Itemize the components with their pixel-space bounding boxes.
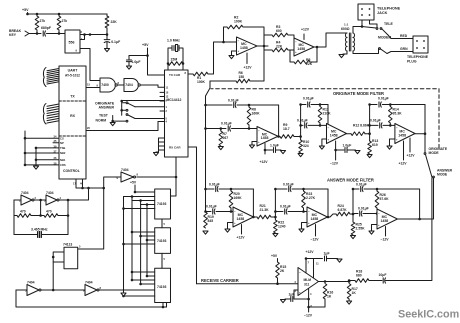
node filter input (answer) — [204, 188, 207, 191]
capacitor 0.1uF (556 timing) — [104, 39, 110, 41]
switch contact ORIGINATE MODE — [424, 153, 426, 155]
wire carry counter1 to counter2 — [161, 219, 163, 228]
wire A2 feedback to output — [327, 189, 329, 217]
ground (U9 + input) — [302, 223, 308, 229]
wire 7400 to 7404 — [118, 84, 124, 86]
svg-text:1.0 MHz: 1.0 MHz — [167, 39, 180, 43]
svg-text:+12V: +12V — [260, 160, 269, 164]
svg-text:+: + — [396, 137, 398, 141]
resistor 22K — [105, 16, 109, 28]
svg-text:0.01μF: 0.01μF — [370, 119, 381, 123]
svg-text:6.87K: 6.87K — [338, 208, 348, 212]
svg-text:+5V: +5V — [271, 254, 278, 258]
svg-text:+12V: +12V — [407, 154, 416, 158]
mid row O2 — [301, 124, 303, 126]
svg-text:100K: 100K — [234, 20, 243, 24]
svg-text:7404: 7404 — [21, 191, 29, 195]
svg-text:MC14412: MC14412 — [167, 98, 182, 102]
power +12V and 1uF (U5) — [264, 144, 266, 155]
svg-text:CONTROL: CONTROL — [63, 169, 80, 173]
counter 74193 (1) — [155, 189, 171, 219]
wire switch pole down to limiter — [386, 178, 432, 281]
wire transformer secondary to switch — [353, 27, 362, 34]
ground (R10) — [298, 154, 303, 157]
op-amp U3 MC1458 (TX driver 1) — [237, 37, 258, 55]
op-amp U4 MC1458 (TX driver 2) — [294, 38, 314, 56]
mid row A3 — [353, 213, 358, 215]
svg-text:10μF: 10μF — [379, 273, 387, 277]
top row A2 — [275, 188, 287, 190]
svg-text:0.01μF: 0.01μF — [221, 122, 232, 126]
svg-text:0.01μF: 0.01μF — [303, 97, 314, 101]
ground (NORM contact) — [110, 123, 115, 126]
svg-text:MODE: MODE — [429, 151, 440, 155]
ground (556 cap) — [104, 49, 109, 52]
switch blade mode select — [426, 155, 432, 177]
svg-text:AY-5-1012: AY-5-1012 — [65, 74, 80, 78]
ground (U6 bypass) — [355, 151, 360, 154]
wire counter3 pins — [132, 271, 155, 273]
svg-text:0.01μF: 0.01μF — [358, 207, 369, 211]
svg-text:1458: 1458 — [297, 47, 305, 51]
wire transformer primary — [343, 51, 347, 54]
svg-text:TEST: TEST — [99, 113, 109, 117]
svg-text:600Ω: 600Ω — [341, 27, 350, 31]
MC14412 left stub pins — [160, 91, 165, 93]
svg-text:−: − — [234, 210, 236, 214]
svg-text:18.7: 18.7 — [283, 127, 290, 131]
wire control bus vertical — [24, 131, 26, 165]
svg-text:21.3K: 21.3K — [260, 208, 270, 212]
ground (control pins) — [33, 166, 38, 169]
svg-text:GRN: GRN — [400, 47, 408, 51]
wire 556 output to 22K node — [80, 34, 107, 36]
wire A1 feedback to output — [252, 189, 254, 217]
svg-text:TX: TX — [70, 95, 75, 99]
svg-text:−12V: −12V — [381, 238, 390, 242]
node mid row O1 — [204, 127, 207, 130]
ground (1.0uF) — [126, 66, 131, 69]
wire jack pins down — [361, 20, 363, 27]
svg-text:7400: 7400 — [101, 83, 109, 87]
svg-text:−12V: −12V — [330, 162, 339, 166]
wire osc output up to UART clock — [86, 188, 89, 200]
power -12V (U9) — [315, 225, 317, 237]
svg-text:619: 619 — [372, 143, 378, 147]
wire clock inverter output to MC14412 pin — [137, 176, 176, 178]
power -12V (U10) — [385, 227, 387, 237]
svg-text:0.01μF: 0.01μF — [228, 99, 239, 103]
svg-text:1K: 1K — [327, 295, 332, 299]
svg-text:556: 556 — [69, 41, 75, 45]
telephone jack J1 — [358, 4, 374, 20]
svg-text:1458: 1458 — [236, 217, 244, 221]
svg-text:95.3K: 95.3K — [393, 112, 403, 116]
wire UART clock pins to divider — [76, 187, 104, 189]
svg-text:−: − — [258, 129, 260, 133]
wire R1 to op-amp U3 input — [208, 42, 237, 74]
wire MC14412 timing pin down to counters — [171, 157, 177, 196]
svg-text:7404: 7404 — [125, 83, 133, 87]
wire O2 feedback to output — [327, 105, 329, 134]
wire U11 minus bias cap — [294, 290, 298, 299]
wire U10 output to answer contact — [397, 218, 419, 220]
wire U4 output to transformer — [314, 33, 347, 47]
svg-text:1K: 1K — [352, 291, 357, 295]
ground (bias cap) — [280, 300, 285, 303]
wire NORM contact to ground — [113, 120, 126, 122]
dashed border originate mode filter — [211, 89, 439, 148]
wire osc verticals — [13, 200, 15, 235]
op-amp U7 MC1458 (originate stage 3) — [395, 124, 415, 144]
wire osc — [35, 199, 47, 201]
svg-text:NP: NP — [60, 141, 64, 145]
divider gate 7404 (D) — [85, 285, 97, 296]
wire counter preset bus — [123, 197, 125, 292]
op-amp U10 MC1458 (answer stage 3) — [377, 209, 397, 229]
svg-text:−: − — [328, 126, 330, 130]
svg-text:TELEPHONE: TELEPHONE — [407, 55, 429, 59]
svg-text:1458: 1458 — [380, 219, 388, 223]
ground (R13) — [367, 155, 372, 158]
wire duplexer tap to filter input — [209, 81, 211, 88]
svg-text:+: + — [238, 49, 240, 53]
svg-text:CS: CS — [60, 136, 64, 140]
ground (transformer) — [339, 55, 344, 58]
timer U1 556 — [65, 30, 80, 53]
top row O3 — [370, 104, 377, 106]
svg-text:SeekIC.com: SeekIC.com — [398, 309, 459, 321]
svg-text:1458: 1458 — [240, 46, 248, 50]
svg-text:+: + — [258, 140, 260, 144]
power -12V and 1.0uF (U6) — [335, 141, 337, 160]
svg-text:74193: 74193 — [157, 285, 167, 289]
svg-text:210K: 210K — [323, 112, 332, 116]
wire clock inverter input — [78, 177, 121, 249]
svg-text:74113: 74113 — [63, 243, 72, 247]
svg-text:ANSWER: ANSWER — [99, 105, 115, 109]
op-amp U8 MC1458 (answer stage 1) — [233, 207, 253, 227]
wire divider output to counter clock — [100, 289, 155, 291]
svg-text:RX CAR: RX CAR — [169, 146, 181, 150]
svg-text:MODE: MODE — [437, 173, 448, 177]
svg-text:TELE: TELE — [384, 22, 393, 26]
svg-text:RX: RX — [70, 114, 76, 118]
svg-text:267: 267 — [223, 136, 229, 140]
svg-text:0.01μF: 0.01μF — [297, 119, 308, 123]
svg-text:2.27K: 2.27K — [306, 196, 316, 200]
svg-text:TELEPHONE: TELEPHONE — [377, 7, 401, 11]
svg-text:TX CAR: TX CAR — [169, 73, 181, 77]
wire U11 output — [319, 281, 350, 283]
wire filter input from duplexer (switch blade) — [206, 88, 211, 96]
svg-text:2.55K: 2.55K — [356, 227, 366, 231]
svg-text:1μF: 1μF — [324, 252, 330, 256]
wire divider — [42, 289, 86, 291]
wire counter2 pins — [132, 231, 155, 233]
oscillator gate 7404 (B) — [46, 195, 57, 205]
svg-text:1.0μF: 1.0μF — [132, 60, 141, 64]
svg-text:311: 311 — [304, 282, 309, 286]
switch blade originate/answer — [126, 102, 128, 104]
svg-text:+: + — [308, 221, 310, 225]
wire carry counter2 to counter3 — [161, 253, 163, 268]
svg-text:74193: 74193 — [157, 202, 167, 206]
svg-text:+: + — [299, 291, 301, 295]
svg-text:0.1μF: 0.1μF — [111, 40, 120, 44]
svg-text:NB1: NB1 — [60, 158, 66, 162]
svg-text:+: + — [234, 221, 236, 225]
svg-text:−12V: −12V — [311, 238, 320, 242]
svg-text:0.01μF: 0.01μF — [283, 183, 294, 187]
IC UART AY-5-1012 — [59, 66, 86, 179]
UART control pins CS NP TSB NB2 NB1 CRS — [25, 137, 59, 139]
svg-text:PLUG: PLUG — [407, 60, 417, 64]
svg-text:22K: 22K — [111, 20, 118, 24]
wire RX CAR pin to receive carrier line — [188, 147, 197, 284]
svg-text:+12V: +12V — [399, 162, 408, 166]
ground (U3 + input) — [232, 51, 237, 55]
svg-text:100K: 100K — [197, 80, 206, 84]
ground (R19) — [203, 231, 208, 234]
svg-text:0.01μF: 0.01μF — [356, 183, 367, 187]
svg-text:−12V: −12V — [304, 314, 313, 318]
power +12V stub (U3) — [246, 53, 248, 64]
svg-text:7404: 7404 — [85, 280, 93, 284]
ground (U8 + input) — [228, 223, 234, 229]
UART RX data bus pins (hatched) — [47, 104, 59, 106]
svg-text:158: 158 — [239, 75, 245, 79]
svg-text:470: 470 — [20, 210, 26, 214]
wire switch bus to MC14412 pin — [122, 100, 165, 102]
svg-text:CRS: CRS — [60, 163, 66, 167]
svg-text:+: + — [328, 137, 330, 141]
wire TX CAR to R1 — [188, 73, 193, 75]
MC14412 bottom-left pins to ground — [159, 137, 165, 139]
svg-text:1458: 1458 — [398, 133, 406, 137]
resistor 27k (first) — [35, 16, 39, 30]
svg-text:160K: 160K — [252, 112, 261, 116]
svg-text:680: 680 — [356, 274, 362, 278]
svg-text:2K: 2K — [280, 269, 285, 273]
svg-text:7404: 7404 — [46, 191, 54, 195]
wire answer output to switch contact — [420, 178, 434, 219]
svg-text:1μF: 1μF — [289, 293, 295, 297]
ground (counter bus) — [123, 291, 125, 293]
svg-text:0.01μF: 0.01μF — [378, 97, 389, 101]
svg-text:1458: 1458 — [310, 217, 318, 221]
svg-text:1.0μF: 1.0μF — [270, 144, 279, 148]
gate 7400 (break/TX) — [100, 78, 115, 92]
svg-text:1:1: 1:1 — [344, 23, 349, 27]
svg-text:ANSWER MODE FILTER: ANSWER MODE FILTER — [327, 177, 374, 182]
wire 556 threshold stub — [80, 35, 85, 40]
svg-text:−: − — [299, 271, 301, 275]
svg-text:470: 470 — [46, 210, 52, 214]
svg-text:1.0μF: 1.0μF — [343, 144, 352, 148]
comparator U11 MLM311 — [298, 268, 319, 296]
power +12V stub (U4) — [303, 34, 305, 40]
svg-text:74193: 74193 — [157, 239, 167, 243]
svg-text:22K: 22K — [276, 44, 283, 48]
svg-text:845: 845 — [208, 219, 214, 223]
power +12V (U8) — [241, 225, 243, 235]
wire A3 feedback vertical — [419, 189, 421, 219]
mid row A2 — [275, 211, 283, 213]
svg-text:1240: 1240 — [278, 225, 286, 229]
svg-text:+12V: +12V — [237, 236, 246, 240]
counter 74193 (2) — [155, 228, 171, 254]
svg-text:0.01μF: 0.01μF — [206, 205, 217, 209]
wire O3 feedback to output — [424, 105, 426, 153]
top row A3 — [353, 188, 359, 190]
svg-text:+5V: +5V — [142, 43, 149, 47]
wire U7 output to originate contact — [415, 133, 425, 135]
svg-text:15M: 15M — [171, 58, 178, 62]
capacitor 1.0uF (5V bypass) — [129, 56, 148, 60]
ground (R17) — [347, 301, 352, 304]
switch contact ANSWER MODE — [433, 176, 435, 178]
op-amp U9 MC1458 (answer stage 2) — [307, 207, 327, 227]
ground (MC14412 pins) — [153, 153, 158, 156]
svg-text:+5V: +5V — [22, 8, 29, 12]
ground (R7) — [218, 147, 223, 150]
wire 556 pin to 7400 gate — [80, 49, 100, 81]
gate 7404 buffer — [124, 79, 138, 92]
svg-text:−: − — [295, 40, 297, 44]
divider gate 7404 (C) — [16, 289, 27, 291]
ground (R22) — [273, 234, 278, 237]
wire 7404 to MC14412 TX data pin — [141, 84, 158, 86]
oscillator gate 7404 (A) — [14, 199, 21, 201]
svg-text:+: + — [295, 50, 297, 54]
svg-text:600: 600 — [276, 29, 282, 33]
counter 74193 (3) — [155, 268, 171, 302]
svg-text:−: − — [396, 126, 398, 130]
wire O1 feedback to output — [278, 105, 280, 137]
svg-text:−: − — [308, 210, 310, 214]
svg-text:JACK: JACK — [377, 11, 388, 15]
node A3 input vertical — [352, 213, 355, 216]
wire receive carrier line — [197, 283, 298, 285]
ground (U5 + input) — [252, 142, 257, 145]
svg-text:324: 324 — [303, 144, 309, 148]
svg-text:R12 8.66K: R12 8.66K — [353, 124, 370, 128]
ground (U7 + input) — [390, 139, 395, 146]
wire 74113 input pins — [53, 252, 64, 262]
svg-text:−: − — [238, 39, 240, 43]
svg-text:KEY: KEY — [9, 33, 17, 37]
svg-text:+5V: +5V — [130, 181, 137, 185]
svg-text:−: − — [378, 212, 380, 216]
capacitor 680pF (break key) — [42, 31, 44, 36]
node O2 input vertical — [299, 135, 302, 138]
telephone plug P1 — [413, 36, 428, 53]
ground (U5 bypass) — [280, 151, 285, 154]
mid row O3 — [370, 124, 378, 126]
power -12V pin (U11) — [308, 289, 310, 313]
op-amp U5 MC1458 (originate stage 1) — [257, 127, 278, 147]
svg-text:NORM: NORM — [96, 118, 107, 122]
node filter input (top row O1) — [204, 104, 207, 107]
svg-text:169K: 169K — [234, 196, 243, 200]
svg-text:1458: 1458 — [261, 136, 269, 140]
node limiter output — [348, 280, 351, 283]
wire blade2 to MC14412 — [135, 118, 165, 120]
ground (U10 + input) — [372, 225, 378, 231]
node O3 input vertical — [368, 132, 371, 135]
svg-text:+12V: +12V — [244, 66, 253, 70]
svg-text:680pF: 680pF — [41, 26, 51, 30]
resistor 27k (second) — [57, 16, 61, 30]
svg-text:7404: 7404 — [27, 280, 35, 284]
wire divider feedback bottom — [16, 290, 163, 307]
svg-text:TSB: TSB — [60, 146, 65, 150]
mid row A1 — [204, 210, 207, 213]
UART TX data bus pins (hatched) — [47, 69, 59, 71]
op-amp U6 MC1458 (originate stage 2) — [327, 124, 347, 144]
svg-text:1458: 1458 — [330, 133, 338, 137]
svg-text:57.6K: 57.6K — [380, 197, 390, 201]
svg-text:+12V: +12V — [306, 250, 315, 254]
ground (U6 + input) — [322, 139, 327, 146]
gate 7404 (clock inverter) — [121, 172, 134, 182]
svg-text:+12V: +12V — [301, 28, 310, 32]
svg-text:ORIGINATE MODE FILTER: ORIGINATE MODE FILTER — [333, 91, 384, 96]
svg-text:NB2: NB2 — [60, 151, 66, 155]
IC U2 MC14412 modem — [165, 70, 189, 157]
svg-text:+: + — [378, 223, 380, 227]
svg-text:0.01μF: 0.01μF — [209, 183, 220, 187]
ground (R25) — [350, 236, 355, 239]
wire U3 output node — [257, 45, 268, 47]
svg-text:3.465 MHz: 3.465 MHz — [31, 228, 48, 232]
ground (+12V bypass) — [337, 259, 342, 262]
svg-text:0.01μF: 0.01μF — [280, 205, 291, 209]
top row O2 — [301, 104, 306, 106]
svg-text:27k: 27k — [40, 19, 46, 23]
node A2 input vertical — [274, 216, 277, 219]
svg-text:27k: 27k — [62, 19, 68, 23]
wire blade1 to MC14412 — [135, 106, 165, 108]
wire counter1 pins — [124, 196, 155, 198]
svg-text:RED: RED — [400, 34, 408, 38]
svg-text:UART: UART — [68, 69, 79, 73]
power +12V stubs (U7) — [403, 141, 405, 160]
svg-text:7404: 7404 — [121, 168, 129, 172]
svg-text:RECEIVE CARRIER: RECEIVE CARRIER — [201, 278, 239, 283]
